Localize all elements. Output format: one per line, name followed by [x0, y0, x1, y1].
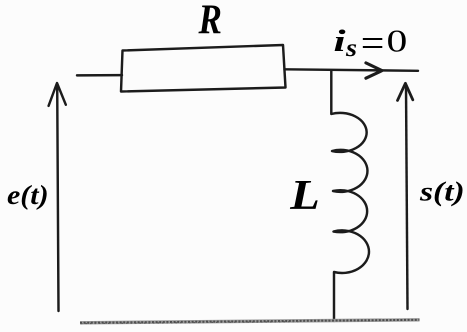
svg-text:L: L [289, 171, 320, 219]
svg-text:=: = [361, 21, 385, 64]
svg-text:s: s [345, 33, 357, 61]
svg-text:s(t): s(t) [419, 176, 465, 206]
svg-text:0: 0 [387, 24, 408, 59]
svg-text:i: i [334, 24, 347, 59]
svg-text:e(t): e(t) [7, 181, 49, 210]
svg-text:R: R [198, 0, 222, 43]
